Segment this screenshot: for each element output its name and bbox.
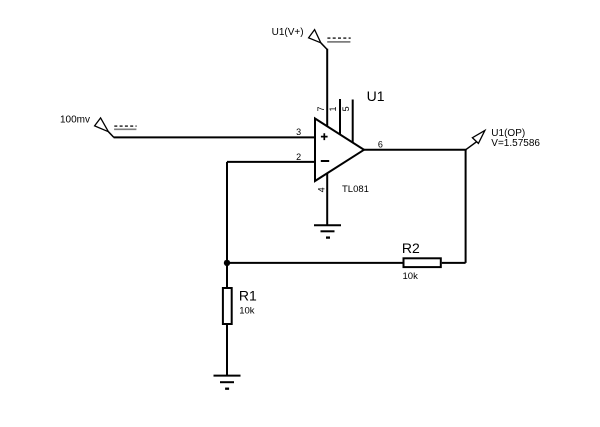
svg-text:6: 6: [378, 140, 383, 150]
svg-text:10k: 10k: [239, 306, 255, 317]
wire inverting input vertical: [226, 162, 228, 263]
junction node: [224, 260, 230, 266]
pin 5: [352, 100, 354, 143]
ground (U1 pin 4): [314, 225, 341, 237]
dc marker (V+): [327, 38, 351, 42]
source flag 100mv: [95, 118, 114, 137]
resistor R1: [223, 288, 232, 324]
wire R1 to ground: [226, 324, 228, 376]
svg-text:7: 7: [316, 106, 326, 111]
wire input to pin 3: [114, 136, 315, 138]
svg-text:TL081: TL081: [342, 184, 369, 195]
svg-text:100mv: 100mv: [60, 115, 90, 126]
svg-text:3: 3: [296, 127, 301, 137]
pin 1: [339, 99, 341, 135]
wire output vertical: [465, 150, 467, 263]
output flag U1(OP): [466, 130, 485, 149]
svg-text:5: 5: [341, 106, 351, 111]
net flag U1(V+): [309, 30, 328, 50]
svg-text:10k: 10k: [403, 271, 419, 282]
resistor R2: [404, 258, 441, 267]
svg-text:V=1.57586: V=1.57586: [491, 138, 540, 149]
op-amp U1: [315, 119, 364, 182]
wire pin 6 output: [364, 149, 467, 151]
wire V+ supply to pin 7: [326, 49, 328, 127]
wire R2 to output node: [442, 262, 466, 264]
svg-text:U1(V+): U1(V+): [272, 27, 304, 38]
dc marker (100mv): [114, 126, 137, 129]
svg-text:U1: U1: [367, 88, 385, 104]
svg-text:2: 2: [296, 152, 301, 162]
svg-text:R1: R1: [239, 288, 257, 304]
wire pin 2 horizontal: [227, 161, 315, 163]
svg-text:R2: R2: [402, 240, 420, 256]
pin 4 wire: [326, 173, 328, 226]
svg-text:1: 1: [328, 106, 338, 111]
wire junction to R2: [227, 262, 403, 264]
svg-text:4: 4: [317, 187, 327, 192]
wire junction to R1: [226, 263, 228, 288]
ground (R1): [214, 376, 241, 389]
